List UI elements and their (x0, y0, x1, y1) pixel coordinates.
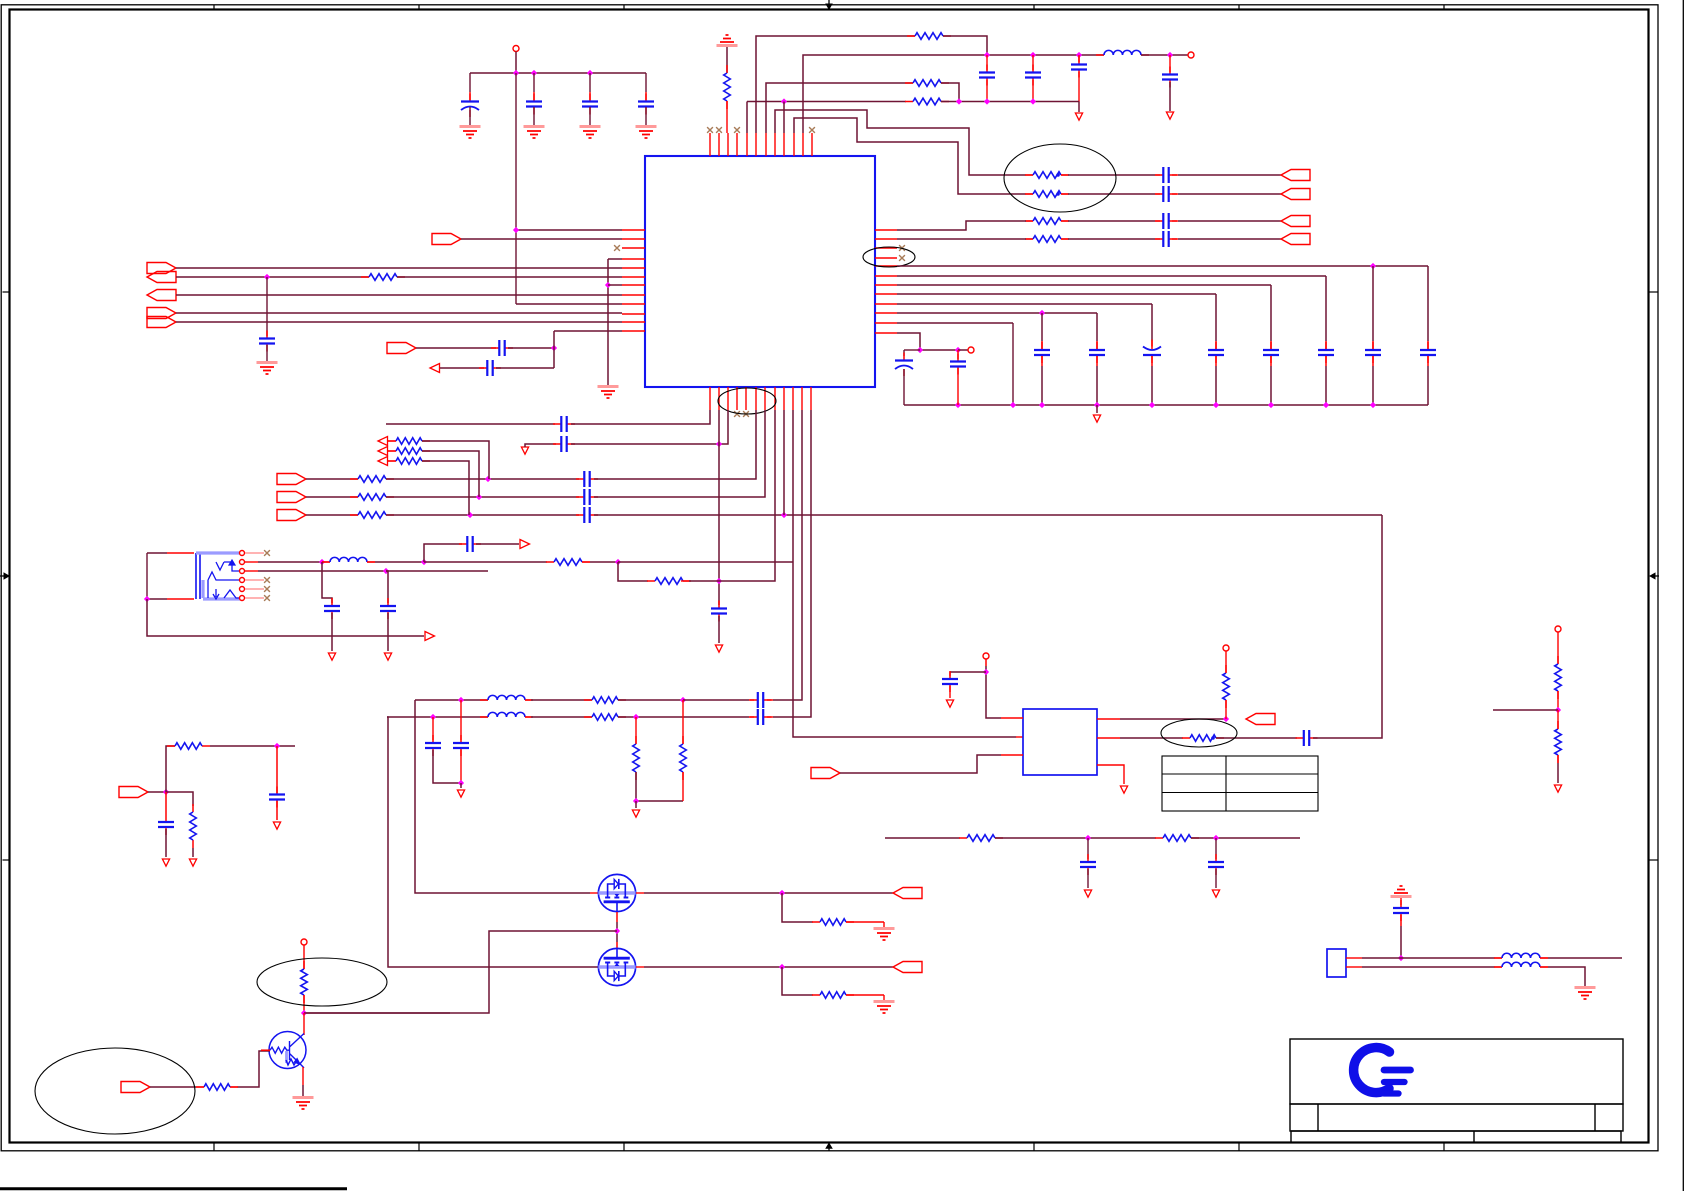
wire (1325, 366, 1327, 405)
wire (618, 562, 648, 581)
no-connect pin (899, 245, 905, 251)
capacitor (533, 94, 535, 115)
wire (897, 312, 1097, 314)
pin wire (1346, 966, 1362, 968)
wire (749, 716, 754, 718)
arrow port (520, 540, 530, 549)
resistor (682, 736, 684, 780)
ellipse around resistor (1161, 719, 1237, 747)
wire (210, 745, 295, 747)
shield ground (1394, 886, 1408, 893)
wire (1427, 266, 1429, 341)
pin wire (1346, 957, 1362, 959)
IC U2 pin (1097, 737, 1120, 739)
wire (618, 561, 793, 563)
wire (525, 716, 531, 718)
capacitor (1325, 342, 1327, 363)
border tick bottom (1238, 1143, 1240, 1152)
wire (1427, 366, 1429, 405)
border tick top (213, 5, 215, 10)
IC U1 right pins (875, 230, 897, 333)
wire (644, 892, 893, 894)
power terminal (983, 653, 989, 659)
wire (746, 102, 748, 134)
wire (386, 496, 579, 498)
port (147, 308, 176, 319)
wire (386, 570, 488, 572)
adjacent sheet corner line bottom-left (0, 1187, 347, 1190)
capacitor (266, 331, 268, 352)
capacitor (1155, 220, 1177, 222)
wire (554, 330, 622, 332)
resistor (907, 35, 951, 37)
inductor (1494, 957, 1548, 959)
wire (1068, 220, 1155, 222)
resistor (812, 994, 854, 996)
resistor (584, 699, 626, 701)
wire (1362, 966, 1495, 968)
wire (1096, 366, 1098, 405)
junction (956, 98, 962, 104)
wire (230, 1086, 237, 1088)
nc stub (245, 597, 264, 599)
MOSFET Q1 (598, 874, 635, 911)
capacitor (1270, 342, 1272, 363)
resistor (905, 101, 949, 103)
output port (1281, 170, 1310, 181)
capacitor (750, 716, 772, 718)
pin wire (636, 892, 644, 894)
wire (756, 36, 915, 133)
wire (1155, 220, 1160, 222)
port (277, 492, 306, 503)
wire (607, 259, 609, 385)
no-connect pin (716, 127, 722, 133)
resistor (361, 276, 405, 278)
wire (957, 350, 959, 359)
junction (1076, 52, 1082, 58)
border arrow bottom (828, 1146, 830, 1151)
resistor (1557, 721, 1559, 763)
wire (461, 238, 622, 240)
wire (904, 349, 920, 351)
wire (897, 238, 1026, 240)
wire (897, 333, 958, 350)
pin wire (590, 892, 598, 894)
border tick left (3, 859, 10, 861)
capacitor (1215, 854, 1217, 875)
junction (1039, 402, 1045, 408)
wire (176, 276, 369, 278)
wire (276, 801, 278, 820)
junction (476, 494, 482, 500)
wire (1151, 356, 1153, 366)
wire (416, 347, 496, 349)
wire (148, 791, 166, 793)
wire (460, 750, 462, 783)
IC U2 pin (1001, 754, 1023, 756)
wire (846, 921, 884, 923)
IC U1 left pins (622, 230, 645, 331)
ground arrow (162, 859, 169, 866)
capacitor (459, 543, 481, 545)
capacitor (949, 671, 951, 692)
wire (986, 80, 988, 102)
wire (306, 514, 358, 516)
wire (1215, 341, 1217, 349)
wire (266, 277, 268, 336)
junction (779, 890, 785, 896)
resistor (905, 82, 949, 84)
ground (257, 361, 278, 364)
border tick bottom (213, 1143, 215, 1152)
pin wire (1026, 220, 1033, 222)
junction (1149, 402, 1155, 408)
wire (469, 73, 471, 92)
wire (589, 107, 591, 125)
ground arrow (632, 810, 639, 817)
wire (594, 514, 1382, 516)
junction (983, 669, 989, 675)
wire (322, 562, 332, 603)
capacitor (576, 496, 598, 498)
port (147, 263, 176, 274)
wire (1540, 966, 1548, 968)
wire (1493, 709, 1558, 711)
resistor (584, 716, 626, 718)
wire (897, 293, 1216, 295)
ground arrow (1120, 786, 1127, 793)
capacitor (576, 514, 598, 516)
wire (636, 772, 683, 801)
wire (1078, 55, 1080, 62)
resistor (388, 440, 430, 442)
wire (903, 350, 905, 356)
wire (1557, 763, 1559, 783)
junction (1030, 52, 1036, 58)
jack pin (240, 560, 245, 565)
wire (1178, 193, 1281, 195)
ellipse around matching resistors (1004, 144, 1116, 212)
wire (1041, 341, 1043, 349)
power terminal (1223, 645, 1229, 651)
power terminal (513, 46, 519, 52)
inductor (1096, 54, 1149, 56)
port (1246, 714, 1275, 725)
wire (903, 369, 905, 405)
pin wire (726, 101, 728, 133)
MOSFET Q2 (598, 948, 635, 985)
resistor (350, 496, 394, 498)
wire (897, 275, 1326, 277)
ground (524, 125, 545, 128)
wire (1172, 193, 1178, 195)
wire (553, 331, 555, 368)
capacitor (589, 94, 591, 115)
wire (941, 101, 1079, 103)
wire (897, 303, 1152, 305)
wire (1215, 356, 1217, 366)
power terminal (1555, 626, 1561, 632)
junction (458, 697, 464, 703)
port (277, 510, 306, 521)
junction (955, 347, 961, 353)
wire (386, 478, 579, 480)
port (387, 343, 416, 354)
resistor (1182, 737, 1224, 739)
wire (635, 801, 637, 808)
polarized capacitor (903, 353, 905, 377)
IC U2 body (1023, 709, 1097, 775)
jack pin (240, 578, 245, 583)
wire (1325, 276, 1327, 341)
capacitor (1400, 900, 1402, 921)
RF connector body (1327, 949, 1346, 977)
capacitor (750, 699, 772, 701)
ground arrow (1084, 890, 1091, 897)
resistor (1025, 193, 1069, 195)
wire (166, 792, 193, 806)
IC U1 top pins (710, 133, 812, 156)
wire (1141, 54, 1188, 56)
junction (917, 347, 923, 353)
wire (1155, 174, 1160, 176)
wire (1215, 294, 1217, 341)
wire (1068, 238, 1155, 240)
arrow port (378, 437, 388, 446)
IC U2 pin (1001, 717, 1023, 719)
wire (192, 848, 194, 857)
wire (1372, 266, 1374, 341)
wire (1120, 737, 1183, 739)
wire (1032, 55, 1034, 70)
wire (1096, 405, 1098, 413)
port (147, 317, 176, 328)
border arrow right (1653, 575, 1659, 577)
wire (1191, 837, 1300, 839)
junction (383, 568, 389, 574)
wire (178, 1086, 196, 1088)
wire (644, 966, 893, 968)
wire (469, 107, 471, 125)
junction (615, 559, 621, 565)
junction (633, 714, 639, 720)
border tick right (1649, 291, 1659, 293)
wire (1041, 356, 1043, 366)
capacitor (491, 347, 513, 349)
nc stub (245, 579, 264, 581)
arrow port (425, 632, 435, 641)
wire (885, 837, 960, 839)
wire (386, 514, 579, 516)
wire (1096, 341, 1098, 349)
wire (386, 571, 388, 603)
wire (749, 699, 754, 701)
ellipse around NC pins (863, 247, 915, 267)
wire (1548, 967, 1585, 986)
wire (718, 410, 720, 605)
wire (258, 570, 386, 572)
wire (1041, 313, 1043, 341)
wire (302, 1085, 304, 1096)
port (147, 272, 176, 283)
border tick top (1238, 5, 1240, 10)
pin wire (1026, 193, 1033, 195)
wire (415, 700, 590, 893)
resistor (1155, 837, 1199, 839)
wire (1215, 869, 1217, 888)
wire (689, 410, 775, 581)
junction (955, 402, 961, 408)
junction (1555, 707, 1561, 713)
inductor (322, 561, 375, 563)
wire (793, 410, 1016, 737)
pin wire (616, 942, 618, 949)
capacitor (718, 601, 720, 622)
capacitor (1041, 342, 1043, 363)
ground arrow (1166, 112, 1173, 119)
wire (1372, 341, 1374, 349)
wire (322, 561, 330, 563)
no-connect pin (734, 411, 740, 417)
wire (1096, 356, 1098, 366)
junction (144, 596, 150, 602)
wire (460, 700, 462, 740)
power terminal (301, 939, 307, 945)
resistor (546, 561, 590, 563)
junction (1223, 716, 1229, 722)
wire (1225, 651, 1227, 673)
wire (1068, 193, 1155, 195)
wire (1172, 220, 1178, 222)
pin wire (1061, 193, 1068, 195)
wire (1557, 691, 1559, 710)
nc stub (245, 588, 264, 590)
resistor (350, 514, 394, 516)
capacitor (1155, 193, 1177, 195)
wire (995, 837, 1156, 839)
junction (485, 476, 491, 482)
power rail (470, 72, 646, 74)
junction (430, 714, 436, 720)
junction (458, 780, 464, 786)
junction (264, 274, 270, 280)
wire (773, 410, 802, 700)
resistor (1557, 656, 1559, 699)
wire (767, 716, 773, 718)
ground (580, 125, 601, 128)
no-connect (264, 586, 270, 592)
wire (589, 92, 591, 100)
wire (1400, 898, 1402, 905)
wire (1325, 356, 1327, 366)
pin wire (616, 912, 618, 922)
ground arrow (1075, 113, 1082, 120)
inductor (1494, 966, 1548, 968)
IC U1 body (645, 156, 875, 387)
wire (1270, 356, 1272, 366)
wire (387, 716, 488, 718)
IC U1 bottom pins (710, 387, 811, 410)
wire (150, 1086, 178, 1088)
wire (897, 221, 1026, 230)
wire (1120, 718, 1226, 720)
wire (1400, 926, 1402, 958)
junction (984, 98, 990, 104)
pin wire (388, 460, 396, 462)
logo mark (1354, 1048, 1411, 1094)
wire (943, 36, 987, 55)
wire (1215, 366, 1217, 405)
capacitor (1155, 174, 1177, 176)
junction (779, 964, 785, 970)
pin wire (388, 450, 396, 452)
wire (237, 1051, 270, 1087)
wire (1557, 632, 1559, 664)
wire (422, 441, 489, 479)
output port (1281, 216, 1310, 227)
resistor (726, 65, 728, 109)
capacitor (1169, 67, 1171, 88)
pin wire (1061, 174, 1068, 176)
ground (460, 125, 481, 128)
wire (531, 699, 592, 701)
wire (460, 783, 462, 788)
junction (319, 559, 325, 565)
arrow port (430, 364, 440, 373)
wire (645, 107, 647, 125)
junction (716, 441, 722, 447)
ground arrow (273, 822, 280, 829)
wire (306, 496, 358, 498)
border tick top (623, 5, 625, 10)
wire (1178, 238, 1281, 240)
junction (301, 1010, 307, 1016)
wire (196, 1086, 204, 1088)
terminal (968, 347, 974, 353)
resistor (388, 460, 430, 462)
wire (303, 995, 305, 1013)
border tick bottom (623, 1143, 625, 1152)
resistor (1025, 174, 1069, 176)
capacitor (165, 814, 167, 835)
title block box (1290, 1039, 1623, 1143)
wire (773, 410, 811, 717)
capacitor (460, 735, 462, 756)
ground (874, 927, 895, 930)
inductor (480, 699, 533, 701)
wire (608, 284, 622, 286)
junction (680, 697, 686, 703)
value table (1162, 756, 1318, 811)
resistor (196, 1086, 238, 1088)
capacitor (1078, 57, 1080, 78)
wire (682, 772, 684, 801)
wire (608, 258, 622, 260)
wire (533, 92, 535, 100)
pin wire (985, 659, 987, 666)
resistor (1225, 665, 1227, 708)
resistor (192, 804, 194, 848)
wire (1362, 957, 1495, 959)
wire (476, 543, 519, 545)
junction (614, 928, 620, 934)
output port (1281, 189, 1310, 200)
junction (1094, 402, 1100, 408)
wire (949, 672, 951, 676)
capacitor (1032, 65, 1034, 86)
wire (1096, 313, 1098, 341)
